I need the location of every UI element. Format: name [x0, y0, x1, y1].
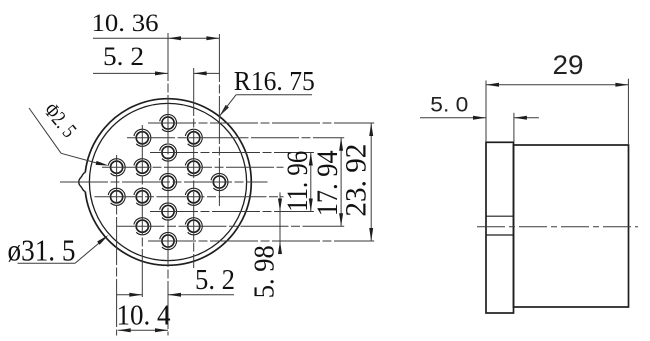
- dimension 10.4 line (bottom): [118, 328, 168, 332]
- hole diameter leader Φ2.5: [29, 108, 109, 166]
- svg-text:10. 36: 10. 36: [92, 10, 159, 37]
- row 1 horizontal centerline / extension line y=123.0: [148, 122, 374, 124]
- row 5 horizontal centerline / extension line y=182.0: [60, 181, 268, 183]
- dimension 11.96 line: [309, 153, 313, 212]
- body diameter leader ø31.5: [18, 235, 109, 263]
- front view outer circle R16.75 (with keyway gap on left): [85, 99, 251, 266]
- pin hole 4 (center column row 4) at (168.0,211.5) Φ2.5: [160, 203, 177, 220]
- svg-text:29: 29: [553, 50, 584, 80]
- dimension text 5.0: [430, 93, 468, 116]
- svg-text:ø31. 5: ø31. 5: [8, 232, 76, 267]
- dimension text 11.96 (rotated): [281, 151, 314, 212]
- row 4 horizontal centerline / extension line y=167.2: [102, 166, 284, 168]
- pin hole 13 (right-mid column) at (193.7,226.2) Φ2.5: [185, 218, 202, 235]
- outer-right column vertical centerline / extension line x=219.4: [218, 34, 220, 207]
- radius leader R16.75 arrow and line: [219, 95, 312, 117]
- dimension 5.98 line: [278, 192, 282, 254]
- pin hole 5 (center column row 5) at (168.0,241.0) Φ2.5: [160, 232, 177, 249]
- svg-text:5. 2: 5. 2: [103, 42, 144, 71]
- dimension text 10.36: [92, 10, 159, 37]
- dimension text Φ2.5 (rotated): [39, 98, 81, 142]
- front view inner circle ø31.5: [89, 103, 246, 260]
- pin hole 7 (right-mid column) at (193.7,137.8) Φ2.5: [185, 129, 202, 146]
- pin hole 2 (center column row 2) at (168.0,152.5) Φ2.5: [160, 144, 177, 161]
- row 2 horizontal centerline / extension line y=137.8: [127, 137, 344, 139]
- row 8 horizontal centerline / extension line y=226.2: [117, 225, 345, 227]
- svg-text:5. 2: 5. 2: [195, 264, 235, 296]
- pin hole 1 (center column row 1) at (168.0,123.0) Φ2.5: [160, 114, 177, 131]
- svg-text:5. 98: 5. 98: [248, 245, 280, 298]
- svg-text:5. 0: 5. 0: [430, 93, 468, 116]
- dimension text ø31.5: [8, 232, 76, 267]
- pin hole 9 (right-mid column) at (193.7,167.2) Φ2.5: [185, 159, 202, 176]
- left-mid column vertical centerline / extension line x=142.3: [141, 125, 143, 298]
- pin hole 3 (center column row 3) at (168.0,182.0) Φ2.5: [160, 173, 177, 190]
- pin hole 15 (outer-left column lower) at (116.6,196.8) Φ2.5: [108, 188, 125, 205]
- dimension 5.2 line (bottom): [117, 293, 235, 297]
- pin hole 6 (left-mid column) at (142.3,137.8) Φ2.5: [134, 129, 151, 146]
- extension line left for 29/5.0: [485, 81, 487, 143]
- dimension text 23.92 (rotated): [339, 144, 372, 217]
- dimension 5.2 line (top): [93, 71, 219, 75]
- side view keyway section line lower: [486, 234, 514, 236]
- pin hole 11 (right-mid column) at (193.7,196.8) Φ2.5: [185, 188, 202, 205]
- pin hole 14 (outer-left column upper) at (116.6,167.2) Φ2.5: [108, 159, 125, 176]
- dimension text 17.94 (rotated): [311, 150, 344, 216]
- dimension 17.94 line: [339, 138, 343, 227]
- dimension 5.0 line: [420, 116, 539, 120]
- side view horizontal centerline: [477, 226, 638, 228]
- dimension text R16.75: [234, 66, 315, 96]
- side view keyway section line upper: [486, 215, 514, 217]
- pin hole 8 (left-mid column) at (142.3,167.2) Φ2.5: [134, 159, 151, 176]
- row 3 horizontal centerline / extension line y=152.5: [150, 152, 314, 154]
- dimension text 5.2 (bottom): [195, 264, 235, 296]
- row 7 horizontal centerline / extension line y=211.5: [150, 211, 314, 213]
- svg-text:23. 92: 23. 92: [339, 144, 372, 217]
- dimension 23.92 line: [369, 123, 373, 241]
- dimension text 5.98 (rotated): [248, 245, 280, 298]
- side view flange rectangle (5.0 wide): [486, 142, 514, 313]
- outer-left column vertical centerline / extension line x=116.6: [116, 155, 118, 336]
- right-mid column vertical centerline / extension line x=193.7: [193, 68, 195, 268]
- svg-text:10. 4: 10. 4: [117, 300, 171, 332]
- dimension 10.36 line (top): [93, 36, 219, 40]
- extension line right for 5.0: [513, 113, 515, 142]
- dimension 29 line: [486, 83, 628, 87]
- central column vertical centerline / extension line x=168.0: [167, 33, 169, 336]
- pin hole 12 (left-mid column) at (142.3,226.2) Φ2.5: [134, 218, 151, 235]
- row 9 horizontal centerline / extension line y=241.0: [148, 240, 374, 242]
- extension line right for 29: [627, 79, 629, 145]
- pin hole 16 (outer-right middle) at (219.4,182.0) Φ2.5: [211, 173, 228, 190]
- keyway bump on left edge of outer circle: [79, 173, 85, 192]
- pin hole 10 (left-mid column) at (142.3,196.8) Φ2.5: [134, 188, 151, 205]
- row 6 horizontal centerline / extension line y=196.8: [95, 196, 284, 198]
- dimension text 5.2 (top): [103, 42, 144, 71]
- dimension text 10.4: [117, 300, 171, 332]
- svg-text:R16. 75: R16. 75: [234, 66, 315, 96]
- dimension text 29: [553, 50, 584, 80]
- side view body rectangle: [514, 145, 629, 307]
- svg-text:11. 96: 11. 96: [281, 151, 314, 212]
